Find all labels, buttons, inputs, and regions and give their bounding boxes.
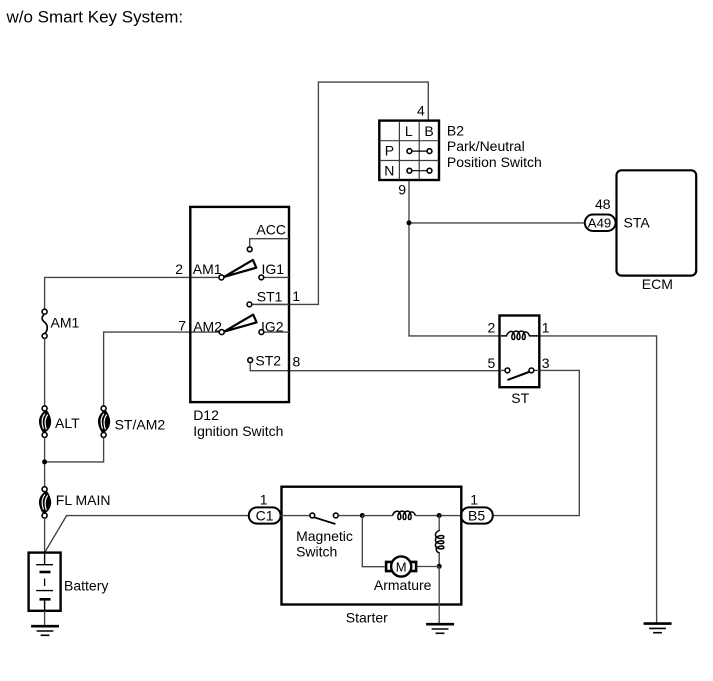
svg-text:AM1: AM1 bbox=[193, 261, 222, 277]
svg-text:FL MAIN: FL MAIN bbox=[56, 492, 111, 508]
svg-text:2: 2 bbox=[175, 261, 183, 277]
connector B5 bbox=[461, 492, 493, 524]
IG1 contact bbox=[259, 261, 289, 280]
fuse AM1 bbox=[42, 309, 79, 338]
svg-text:ST: ST bbox=[511, 390, 529, 406]
wire ALT to junction bbox=[44, 437, 46, 486]
park/neutral position switch B2 grid bbox=[379, 121, 439, 180]
svg-text:9: 9 bbox=[398, 182, 406, 198]
ACC contact bbox=[247, 222, 289, 252]
wire AM1 fuse to ALT fuse bbox=[44, 338, 46, 406]
svg-text:ECM: ECM bbox=[642, 276, 673, 292]
relay coil bbox=[501, 331, 538, 339]
svg-text:48: 48 bbox=[595, 196, 611, 212]
svg-text:N: N bbox=[384, 163, 394, 179]
svg-text:STA: STA bbox=[624, 215, 651, 231]
svg-text:8: 8 bbox=[293, 354, 301, 370]
svg-text:ALT: ALT bbox=[55, 415, 80, 431]
svg-text:B2: B2 bbox=[447, 123, 464, 139]
svg-text:1: 1 bbox=[470, 492, 478, 508]
relay switch contacts bbox=[500, 368, 540, 380]
svg-text:IG1: IG1 bbox=[262, 261, 285, 277]
wire junction to ECM A49 bbox=[409, 222, 585, 224]
svg-text:1: 1 bbox=[260, 492, 268, 508]
svg-text:Armature: Armature bbox=[374, 577, 432, 593]
B2 contact P row bbox=[407, 149, 432, 154]
svg-text:L: L bbox=[405, 123, 413, 139]
svg-text:P: P bbox=[385, 143, 394, 159]
wire coil to right junction and B5 bbox=[416, 515, 462, 517]
ECM U-ECM bbox=[617, 170, 697, 292]
B2 component label bbox=[447, 123, 542, 170]
svg-text:A49: A49 bbox=[588, 215, 611, 230]
wire battery to ground bbox=[44, 611, 46, 626]
armature motor M bbox=[374, 556, 432, 593]
wire ST relay pin1 to right ground bbox=[539, 336, 656, 624]
svg-text:B: B bbox=[424, 123, 433, 139]
svg-text:1: 1 bbox=[542, 320, 550, 336]
svg-text:C1: C1 bbox=[256, 507, 274, 523]
wire junction down to armature row bbox=[362, 516, 384, 567]
connector C1 bbox=[249, 492, 281, 524]
wire junction to coil bbox=[362, 515, 392, 517]
wire battery branch diagonal to starter C1 bbox=[45, 516, 249, 553]
battery bbox=[29, 553, 109, 611]
AM2 contact and lever bbox=[178, 315, 256, 335]
svg-text:AM2: AM2 bbox=[193, 318, 222, 334]
ST1 contact bbox=[247, 288, 300, 307]
svg-text:Ignition Switch: Ignition Switch bbox=[193, 423, 283, 439]
svg-text:Starter: Starter bbox=[346, 609, 388, 625]
wire ST2 to ST relay pin5 bbox=[250, 363, 499, 371]
svg-text:Battery: Battery bbox=[64, 577, 108, 593]
wire bottom junction to starter ground bbox=[438, 567, 440, 625]
ground starter bbox=[426, 624, 454, 633]
coil magnetic switch (horizontal) bbox=[393, 511, 416, 519]
wire ST/AM2 to junction bbox=[45, 437, 104, 462]
wire armature to bottom junction bbox=[417, 566, 439, 568]
wire B5 junction down through field coil to bottom junction bbox=[438, 516, 440, 531]
B2 contact N row bbox=[407, 168, 432, 173]
svg-text:Magnetic: Magnetic bbox=[296, 528, 353, 544]
svg-text:Park/Neutral: Park/Neutral bbox=[447, 138, 525, 154]
relay ST bbox=[488, 316, 550, 407]
wire AM1 pin2 to AM1 fuse bbox=[45, 277, 219, 309]
wire ST relay pin3 to B5 bbox=[493, 370, 579, 515]
wire ST1 pin1 to B2 pin4 (up and over) bbox=[252, 82, 428, 304]
svg-text:Switch: Switch bbox=[296, 543, 337, 559]
ground battery bbox=[31, 626, 59, 635]
svg-text:D12: D12 bbox=[193, 407, 219, 423]
ignition switch D12 box bbox=[190, 207, 289, 439]
magnetic switch bbox=[296, 513, 362, 559]
node junction at pin9/A49 bbox=[407, 220, 412, 225]
svg-text:ST1: ST1 bbox=[257, 288, 283, 304]
svg-text:4: 4 bbox=[417, 103, 425, 119]
fusible link ST/AM2 bbox=[99, 406, 166, 438]
svg-text:1: 1 bbox=[292, 288, 300, 304]
svg-text:3: 3 bbox=[542, 355, 550, 371]
svg-text:B5: B5 bbox=[468, 507, 485, 523]
starter box bbox=[282, 487, 462, 626]
wire B2 pin9 down to ST relay pin2 bbox=[409, 180, 500, 336]
svg-text:5: 5 bbox=[488, 355, 496, 371]
svg-text:AM1: AM1 bbox=[51, 314, 80, 330]
fusible link ALT bbox=[40, 406, 80, 438]
connector A49 bbox=[585, 215, 616, 232]
wire C1 into starter bbox=[281, 515, 310, 517]
svg-text:Position Switch: Position Switch bbox=[447, 154, 542, 170]
AM1 contact and lever bbox=[175, 260, 256, 280]
ground right (ST relay circuit) bbox=[644, 624, 672, 633]
wire FL MAIN to battery bbox=[44, 518, 46, 553]
fusible link FL MAIN bbox=[40, 487, 111, 518]
svg-text:M: M bbox=[396, 559, 407, 574]
ST2 contact bbox=[248, 353, 301, 370]
svg-text:ACC: ACC bbox=[256, 222, 286, 238]
svg-text:7: 7 bbox=[178, 317, 186, 333]
svg-text:ST2: ST2 bbox=[255, 353, 281, 369]
node junction left of coil bbox=[360, 513, 365, 518]
node junction below ALT bbox=[42, 459, 47, 464]
field coil (vertical) bbox=[435, 530, 443, 553]
IG2 contact bbox=[259, 318, 289, 334]
wire AM2 pin7 to ST/AM2 fuse bbox=[104, 332, 220, 406]
node junction below field coil bbox=[437, 564, 442, 569]
node junction right of coil bbox=[437, 513, 442, 518]
svg-text:2: 2 bbox=[488, 320, 496, 336]
svg-text:w/o Smart Key System:: w/o Smart Key System: bbox=[6, 8, 184, 27]
svg-text:ST/AM2: ST/AM2 bbox=[115, 416, 166, 432]
